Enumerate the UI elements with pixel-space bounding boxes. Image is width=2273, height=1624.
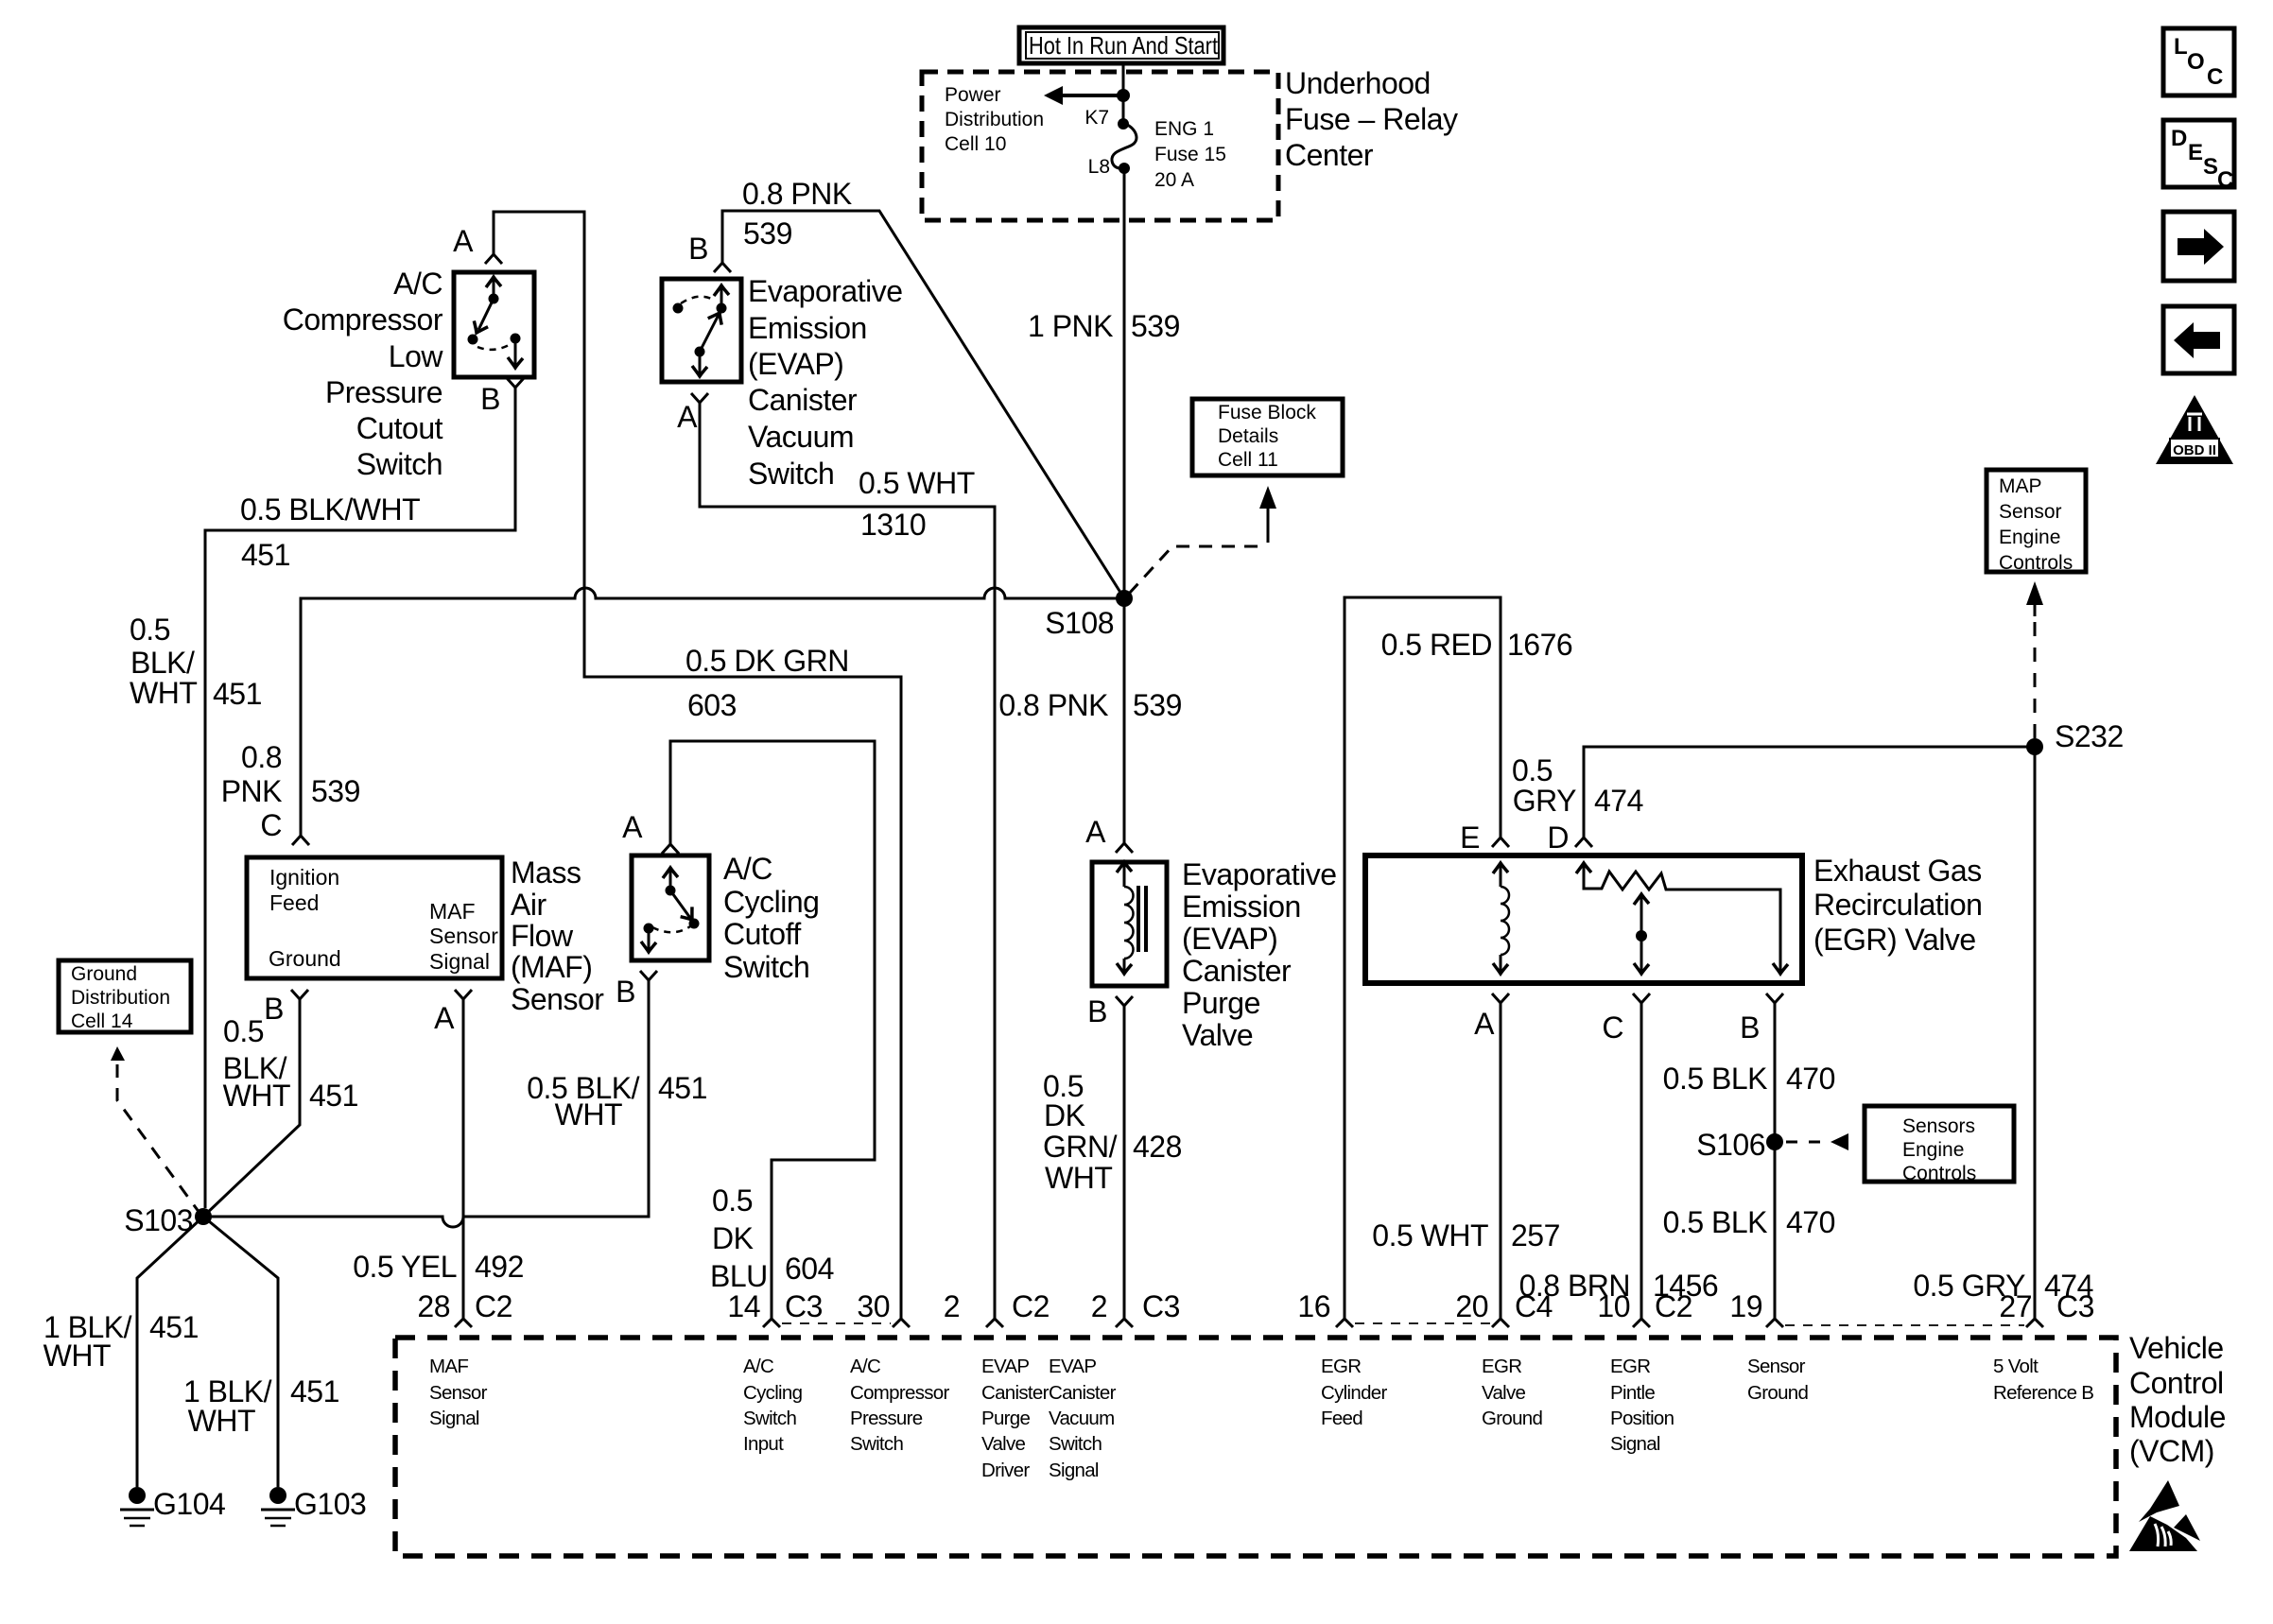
wire 0.8 PNK 539 from S108 to MAF ignition feed pin C (hops over crossings) [301,588,1124,836]
svg-text:Distribution: Distribution [945,109,1044,130]
wire 0.8 BRN 1456 from EGR pin C to VCM pin 10 C2 [1640,1003,1643,1319]
node S106 [1766,1133,1783,1150]
VCM pin 10 function label [1610,1356,1674,1455]
label 0.8 BRN 1456 [1519,1269,1719,1303]
svg-text:0.5 DK GRN: 0.5 DK GRN [685,644,849,678]
svg-text:Driver: Driver [981,1460,1030,1481]
svg-text:0.5 BLK: 0.5 BLK [1663,1205,1768,1239]
svg-text:S232: S232 [2055,719,2124,753]
svg-text:Controls: Controls [1999,552,2073,574]
svg-text:Evaporative: Evaporative [748,274,902,308]
label 0.5 DK GRN 603 [685,644,849,722]
svg-text:EVAP: EVAP [1049,1356,1096,1377]
svg-text:Feed: Feed [1321,1408,1362,1429]
svg-text:0.5 WHT: 0.5 WHT [859,466,975,500]
svg-text:GRY: GRY [1513,784,1576,818]
svg-text:Pressure: Pressure [325,375,442,409]
svg-text:Fuse Block: Fuse Block [1218,402,1316,423]
pin A of cycling switch [622,810,679,854]
svg-text:Ground: Ground [1482,1408,1542,1429]
svg-text:16: 16 [1297,1289,1330,1323]
svg-text:WHT: WHT [43,1339,111,1373]
svg-text:MAF: MAF [429,899,476,924]
pin C of MAF sensor [260,808,309,845]
wire 0.5 BLK 470 from EGR pin B to VCM pin 19 [1774,1003,1777,1319]
svg-text:Switch: Switch [723,950,809,984]
label S103 [124,1203,193,1237]
svg-text:(EGR) Valve: (EGR) Valve [1813,923,1976,957]
svg-text:BLU: BLU [710,1259,768,1293]
VCM pin 30 function label [850,1356,950,1455]
svg-text:Signal: Signal [429,1408,479,1429]
svg-text:Switch: Switch [748,457,834,491]
svg-text:539: 539 [311,774,360,808]
svg-text:0.5 WHT: 0.5 WHT [1372,1218,1488,1253]
svg-text:Mass: Mass [511,855,581,890]
svg-text:B: B [1740,1011,1760,1045]
pin A of purge valve [1085,815,1133,853]
reference box Fuse Block Details Cell 11 [1192,399,1343,475]
label 0.8 PNK 539 (MAF feed branch) [221,740,360,808]
svg-text:451: 451 [241,538,290,572]
svg-text:0.5 BLK: 0.5 BLK [1663,1062,1768,1096]
svg-text:14: 14 [727,1289,760,1323]
svg-text:Hot In Run And Start: Hot In Run And Start [1029,31,1219,60]
VCM pin 2/C2 [944,1289,1050,1327]
svg-text:E: E [1460,821,1480,855]
component: Mass Air Flow (MAF) Sensor [247,857,502,978]
pin A of vacuum switch [677,393,708,434]
label 0.5 YEL 492 [353,1250,524,1284]
icon LOC box [2163,28,2234,95]
pin B of MAF sensor [264,990,308,1026]
label 0.5 WHT 257 [1372,1218,1560,1253]
reference box MAP Sensor Engine Controls [1987,470,2086,574]
svg-text:Valve: Valve [1182,1018,1253,1052]
dashed reference from Ground Distribution to S103 [111,1046,200,1213]
svg-text:S108: S108 [1045,606,1114,640]
svg-text:A: A [453,224,474,258]
VCM pin 28 function label [429,1356,488,1429]
svg-text:0.5: 0.5 [712,1183,753,1218]
label 0.5 BLK/WHT 451 (upper) [240,492,420,572]
svg-text:C3: C3 [785,1289,823,1323]
label 0.5 DK BLU 604 [710,1183,834,1293]
node S232 [2026,738,2043,755]
svg-text:Sensor: Sensor [1747,1356,1806,1377]
svg-text:604: 604 [785,1252,834,1286]
svg-text:A: A [1085,815,1106,849]
VCM pin 10/C2 [1597,1289,1692,1327]
svg-text:603: 603 [687,688,737,722]
wire 0.8 PNK 539 diagonal from EVAP vacuum switch B to S108 [722,211,1124,598]
solenoid valve: EVAP Canister Purge Valve [1092,862,1167,986]
svg-text:(VCM): (VCM) [2129,1434,2214,1468]
svg-text:C: C [260,808,282,842]
svg-text:19: 19 [1729,1289,1762,1323]
node S108 [1116,590,1133,607]
pin B of vacuum switch [688,232,731,272]
svg-text:Reference B: Reference B [1993,1382,2093,1404]
pin E of EGR valve [1460,821,1509,855]
VCM pin 27 function label [1993,1356,2093,1404]
wire 0.5 WHT 257 from EGR pin A to VCM pin 20 C4 [1500,1003,1502,1319]
svg-text:A/C: A/C [850,1356,881,1377]
svg-text:539: 539 [1131,309,1180,343]
svg-text:Cell 10: Cell 10 [945,133,1006,155]
svg-text:Vehicle: Vehicle [2129,1331,2224,1365]
svg-text:Center: Center [1285,138,1374,172]
svg-text:451: 451 [290,1374,339,1408]
svg-text:Canister: Canister [1182,954,1292,988]
label Power Distribution Cell 10 [945,84,1044,155]
svg-text:L8: L8 [1088,156,1110,178]
svg-text:C3: C3 [1142,1289,1180,1323]
svg-text:WHT: WHT [555,1097,622,1132]
icon DESC box [2163,120,2234,193]
ground G104 [120,1487,225,1526]
svg-text:WHT: WHT [130,676,197,710]
svg-text:Cylinder: Cylinder [1321,1382,1387,1404]
svg-text:C2: C2 [1655,1289,1692,1323]
wire 0.5 BLK/WHT 451 from S103 to cycling switch B [203,980,649,1227]
svg-text:28: 28 [417,1289,450,1323]
svg-text:Flow: Flow [511,919,574,953]
svg-text:0.5 YEL: 0.5 YEL [353,1250,457,1284]
svg-text:Input: Input [743,1433,784,1455]
svg-text:Fuse – Relay: Fuse – Relay [1285,102,1458,136]
svg-text:539: 539 [1133,688,1182,722]
svg-text:Purge: Purge [981,1408,1031,1429]
svg-text:Signal: Signal [1610,1433,1660,1455]
label Mass Air Flow (MAF) Sensor [511,855,604,1016]
VCM pin 16 function label [1321,1356,1387,1429]
VCM pin 2/C3 [1091,1289,1180,1327]
svg-text:GRN/: GRN/ [1043,1130,1118,1164]
svg-text:Module: Module [2129,1400,2226,1434]
svg-text:1 PNK: 1 PNK [1028,309,1113,343]
node S103 [195,1208,212,1225]
svg-text:Purge: Purge [1182,986,1260,1020]
pin A of EGR valve [1474,993,1509,1041]
VCM pin 19 [1729,1289,1783,1327]
svg-text:A: A [1474,1007,1495,1041]
svg-text:Valve: Valve [981,1433,1026,1455]
svg-text:Ground: Ground [71,963,137,985]
svg-text:S106: S106 [1696,1128,1765,1162]
label Underhood Fuse-Relay Center [1285,66,1458,172]
label 1 PNK 539 [1028,309,1180,343]
svg-text:Ignition: Ignition [269,865,339,890]
VCM pin 28/C2 [417,1289,512,1327]
label 0.8 PNK 539 (EVAP vacuum switch branch) [742,177,852,251]
svg-text:C4: C4 [1515,1289,1553,1323]
svg-text:257: 257 [1511,1218,1560,1253]
connector dashes pins 16-20 [1355,1322,1490,1324]
wire: hot feed from Hot In Run And Start into fuse K7 [1122,62,1125,124]
svg-text:539: 539 [743,216,792,251]
wire 0.5 WHT 1310 from vacuum switch A to VCM pin 2 C2 [700,403,995,1319]
connector dashes pins 19-27 [1785,1324,2024,1326]
svg-text:1310: 1310 [860,508,926,542]
ground G103 [261,1487,366,1526]
svg-text:Signal: Signal [1049,1460,1099,1481]
svg-text:DK: DK [712,1221,754,1255]
label 0.5 GRY 474 (pin 27) [1913,1269,2093,1303]
fuse ENG 1 Fuse 15 20 A [1084,107,1226,191]
svg-text:A: A [622,810,643,844]
label 0.5 BLK/WHT 451 (cycling switch branch) [527,1071,707,1132]
svg-text:EGR: EGR [1321,1356,1361,1377]
wire 1 PNK 539 from fuse L8 down to S108 [1123,168,1126,598]
svg-text:1676: 1676 [1507,628,1572,662]
svg-text:Pressure: Pressure [850,1408,923,1429]
svg-text:Controls: Controls [1902,1163,1976,1184]
svg-text:0.5: 0.5 [223,1014,264,1048]
svg-text:B: B [688,232,708,266]
pin A of MAF sensor [434,990,472,1035]
VCM pin 2 function label [981,1356,1050,1481]
svg-text:(EVAP): (EVAP) [748,347,843,381]
svg-text:Cell 11: Cell 11 [1218,449,1278,471]
module: Vehicle Control Module (VCM) dashed box [395,1338,2116,1556]
svg-text:B: B [264,992,284,1026]
svg-text:BLK/: BLK/ [130,646,195,680]
label A/C Cycling Cutoff Switch [723,852,819,984]
wire: arrow to Power Distribution [1044,86,1130,105]
svg-text:Feed: Feed [269,890,319,915]
svg-text:E: E [2188,140,2203,165]
icon OBD II triangle [2156,395,2233,464]
svg-text:470: 470 [1786,1062,1835,1096]
svg-text:0.5: 0.5 [130,613,170,647]
dashed reference from S108 to Fuse Block Details [1129,486,1276,594]
reference box Ground Distribution Cell 14 [59,960,191,1032]
svg-text:451: 451 [213,677,262,711]
svg-text:470: 470 [1786,1205,1835,1239]
EGR pintle position potentiometer [1576,863,1788,974]
svg-text:Ground: Ground [269,946,341,971]
reference box Sensors Engine Controls [1865,1106,2014,1184]
svg-text:0.5 RED: 0.5 RED [1381,628,1492,662]
svg-text:20: 20 [1455,1289,1488,1323]
svg-text:Valve: Valve [1482,1382,1526,1404]
svg-text:Canister: Canister [981,1382,1050,1404]
svg-text:Cutout: Cutout [356,411,443,445]
svg-text:Sensor: Sensor [429,1382,488,1404]
wire 0.5 BLK/WHT 451 from MAF ground B to S103 [203,999,300,1217]
svg-text:A: A [677,400,698,434]
svg-text:DK: DK [1044,1098,1085,1132]
label 0.8 PNK 539 (purge valve branch) [998,688,1182,722]
wire 0.5 DK GRN/WHT 428 from purge valve B to VCM pin 2 C3 [1123,1006,1126,1319]
icon right arrow box [2163,212,2234,281]
svg-text:A: A [434,1001,455,1035]
svg-text:A/C: A/C [723,852,772,886]
label 0.5 BLK/WHT 451 (MAF ground) [223,1014,358,1113]
svg-text:EGR: EGR [1482,1356,1521,1377]
svg-text:A/C: A/C [393,267,442,301]
svg-text:30: 30 [857,1289,890,1323]
svg-text:O: O [2187,49,2205,75]
label S232 [2055,719,2124,753]
pin B of EGR valve [1740,993,1783,1045]
svg-text:2: 2 [1091,1289,1107,1323]
svg-text:Cutoff: Cutoff [723,917,801,951]
label 1 BLK/WHT 451 (G104) [43,1310,199,1373]
svg-text:(MAF): (MAF) [511,950,592,984]
svg-text:B: B [480,382,500,416]
svg-text:Exhaust Gas: Exhaust Gas [1813,854,1982,888]
svg-text:Canister: Canister [1049,1382,1117,1404]
svg-text:451: 451 [309,1079,358,1113]
svg-text:S: S [2203,154,2218,180]
svg-text:EGR: EGR [1610,1356,1650,1377]
dashed reference from S232 to MAP Sensor Engine Controls [2026,581,2043,738]
svg-text:Compressor: Compressor [283,302,443,337]
VCM pin 2 function label [1049,1356,1117,1481]
svg-text:D: D [1547,821,1569,855]
EGR potentiometer wiper [1634,894,1649,974]
svg-text:Low: Low [389,339,444,373]
pin A of compressor switch [453,224,502,264]
svg-text:Details: Details [1218,425,1278,447]
pin B of purge valve [1087,994,1133,1028]
svg-text:K7: K7 [1084,107,1109,129]
svg-text:0.5: 0.5 [1512,753,1553,787]
svg-text:C2: C2 [1012,1289,1050,1323]
svg-text:Sensor: Sensor [511,982,604,1016]
label 1 BLK/WHT 451 (G103) [183,1374,339,1438]
label Evaporative Emission (EVAP) Canister Vacuum Switch [748,274,902,491]
svg-text:Switch: Switch [850,1433,903,1455]
pin C of EGR valve [1602,993,1650,1045]
svg-text:Signal: Signal [429,949,490,974]
wire 0.5 RED 1676 from VCM pin 16 to EGR pin E [1345,597,1501,1319]
svg-text:Cycling: Cycling [743,1382,803,1404]
svg-text:Cell 14: Cell 14 [71,1011,133,1032]
component: Exhaust Gas Recirculation (EGR) Valve [1365,855,1802,983]
svg-text:Sensors: Sensors [1902,1115,1975,1137]
label 0.5 DK GRN/WHT 428 [1043,1069,1182,1195]
switch: A/C Cycling Cutoff Switch [632,855,709,960]
svg-text:S103: S103 [124,1203,193,1237]
pin D of EGR valve [1547,821,1592,855]
label S108 [1045,606,1114,640]
svg-text:Pintle: Pintle [1610,1382,1655,1404]
ESD sensitivity symbol [2129,1480,2200,1551]
label S106 [1696,1128,1765,1162]
svg-text:C: C [2207,64,2223,90]
svg-text:0.8 PNK: 0.8 PNK [742,177,852,211]
svg-text:0.5 BLK/WHT: 0.5 BLK/WHT [240,492,420,527]
svg-text:Sensor: Sensor [429,924,498,948]
wire 0.5 GRY 474 from EGR pin D to S232 [1584,747,2035,838]
wire 0.5 GRY 474 from S232 to VCM pin 27 C3 [2034,747,2037,1319]
svg-text:L: L [2174,34,2188,60]
svg-text:Vacuum: Vacuum [748,420,854,454]
VCM pin 20 function label [1482,1356,1542,1429]
svg-text:WHT: WHT [223,1079,290,1113]
svg-text:C: C [1602,1011,1623,1045]
VCM pin 30 [857,1289,910,1327]
svg-text:C: C [2217,167,2233,193]
wire 0.5 DK GRN 603 from compressor switch A to VCM pin 30 [494,212,901,1319]
svg-text:27: 27 [1999,1289,2032,1323]
svg-text:Cycling: Cycling [723,885,819,919]
underhood fuse-relay center dashed box [922,72,1278,220]
svg-text:G103: G103 [294,1487,366,1521]
wire 1 BLK/WHT 451 from S103 to G104 [137,1217,203,1487]
wire 1 BLK/WHT 451 from S103 to G103 [203,1217,278,1487]
svg-text:EVAP: EVAP [981,1356,1029,1377]
svg-text:Canister: Canister [748,383,858,417]
svg-text:G104: G104 [153,1487,225,1521]
connector dashes C3 pins 14-30 [782,1322,891,1324]
label Exhaust Gas Recirculation (EGR) Valve [1813,854,1982,957]
label 0.5 BLK 470 (upper) [1663,1062,1835,1096]
svg-text:MAF: MAF [429,1356,468,1377]
label 0.5 WHT 1310 [859,466,975,542]
VCM pin 14 function label [743,1356,803,1455]
svg-text:Distribution: Distribution [71,987,170,1009]
wire 0.5 YEL 492 from MAF signal A to VCM pin 28 [462,999,465,1319]
svg-text:B: B [616,975,635,1009]
svg-text:Recirculation: Recirculation [1813,888,1982,922]
label 0.5 BLK 470 (lower) [1663,1205,1835,1239]
svg-text:ENG 1: ENG 1 [1154,118,1214,140]
svg-text:492: 492 [475,1250,524,1284]
svg-text:2: 2 [944,1289,960,1323]
VCM pin 20/C4 [1455,1289,1553,1327]
wire 0.5 BLK/WHT 451 from compressor switch B to S103 [205,388,515,1208]
EGR solenoid coil [1493,863,1509,974]
svg-text:Position: Position [1610,1408,1674,1429]
svg-text:0.8 PNK: 0.8 PNK [998,688,1108,722]
svg-text:Control: Control [2129,1366,2224,1400]
svg-text:10: 10 [1597,1289,1630,1323]
svg-text:451: 451 [658,1071,707,1105]
svg-text:428: 428 [1133,1130,1182,1164]
svg-text:474: 474 [1594,784,1643,818]
label 0.5 GRY 474 (EGR D) [1512,753,1643,818]
label 0.5 BLK/WHT 451 (left margin) [130,613,262,711]
svg-text:20 A: 20 A [1154,169,1194,191]
svg-text:Underhood: Underhood [1285,66,1431,100]
wire 0.5 DK BLU 604 from cycling switch A to VCM pin 14 C3 [670,741,875,1319]
svg-text:Ground: Ground [1747,1382,1808,1404]
svg-text:Emission: Emission [748,311,867,345]
switch: EVAP Canister Vacuum Switch [662,279,741,382]
svg-text:D: D [2171,126,2187,151]
svg-text:Compressor: Compressor [850,1382,950,1404]
svg-text:Switch: Switch [743,1408,796,1429]
svg-text:WHT: WHT [1045,1161,1112,1195]
svg-text:Evaporative: Evaporative [1182,857,1336,891]
svg-text:Air: Air [511,888,547,922]
label Vehicle Control Module (VCM) [2129,1331,2226,1468]
svg-text:Switch: Switch [356,447,442,481]
svg-text:451: 451 [149,1310,199,1344]
svg-text:A/C: A/C [743,1356,774,1377]
svg-text:Engine: Engine [1999,527,2060,548]
svg-text:(EVAP): (EVAP) [1182,922,1277,956]
svg-text:0.8: 0.8 [241,740,282,774]
label 0.5 RED 1676 [1381,628,1573,662]
power label box "Hot In Run And Start" [1019,27,1223,63]
svg-text:C2: C2 [475,1289,512,1323]
VCM pin 27/C3 [1999,1289,2094,1327]
